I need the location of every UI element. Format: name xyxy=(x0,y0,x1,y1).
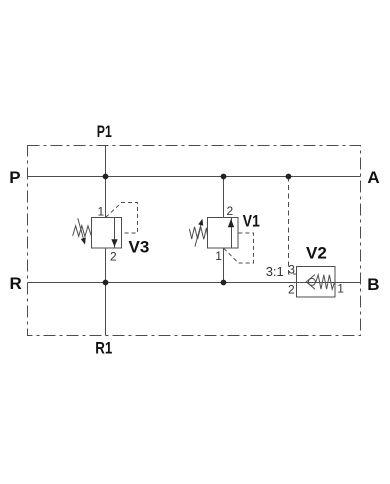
svg-text:A: A xyxy=(367,168,379,187)
svg-text:3: 3 xyxy=(288,262,295,276)
svg-text:V3: V3 xyxy=(129,238,150,257)
svg-text:2: 2 xyxy=(110,250,117,264)
svg-text:1: 1 xyxy=(215,249,222,263)
svg-text:1: 1 xyxy=(337,281,344,295)
svg-text:R1: R1 xyxy=(95,339,112,358)
svg-text:V2: V2 xyxy=(306,243,327,262)
svg-text:P: P xyxy=(9,168,20,187)
svg-text:R: R xyxy=(10,274,22,293)
svg-text:V1: V1 xyxy=(243,211,260,230)
svg-text:2: 2 xyxy=(227,204,234,218)
svg-text:B: B xyxy=(367,275,379,294)
svg-text:P1: P1 xyxy=(97,122,112,141)
svg-text:2: 2 xyxy=(288,282,295,296)
svg-text:1: 1 xyxy=(98,205,105,219)
svg-text:3:1: 3:1 xyxy=(266,264,284,279)
